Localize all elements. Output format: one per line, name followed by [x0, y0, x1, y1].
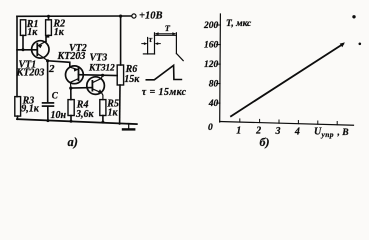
- svg-text:120: 120: [204, 60, 219, 70]
- svg-text:, В: , В: [337, 128, 349, 138]
- svg-text:Т: Т: [165, 23, 171, 33]
- svg-text:C: C: [52, 91, 59, 101]
- svg-text:2: 2: [255, 126, 261, 137]
- svg-text:Т, мкс: Т, мкс: [226, 19, 252, 29]
- svg-text:КТ203: КТ203: [57, 51, 86, 62]
- svg-text:4: 4: [294, 127, 300, 138]
- svg-text:9,1к: 9,1к: [21, 104, 40, 115]
- svg-text:τ = 15мкс: τ = 15мкс: [142, 87, 187, 98]
- svg-text:1к: 1к: [27, 27, 38, 38]
- svg-text:160: 160: [204, 40, 219, 50]
- svg-text:упр: упр: [321, 130, 334, 139]
- svg-text:1: 1: [236, 125, 241, 136]
- svg-text:0: 0: [208, 123, 213, 133]
- svg-text:1к: 1к: [54, 27, 65, 38]
- svg-text:+10В: +10В: [139, 10, 163, 21]
- svg-text:КТ203: КТ203: [16, 68, 45, 79]
- svg-text:τ: τ: [149, 34, 153, 44]
- svg-text:10н: 10н: [51, 110, 67, 121]
- svg-text:б): б): [260, 135, 270, 149]
- svg-text:2: 2: [48, 63, 55, 75]
- svg-text:40: 40: [208, 99, 219, 109]
- svg-text:80: 80: [209, 79, 219, 89]
- svg-text:3,6к: 3,6к: [75, 109, 95, 120]
- svg-text:3: 3: [275, 126, 281, 137]
- svg-text:1к: 1к: [108, 108, 119, 119]
- svg-text:КТ312: КТ312: [88, 64, 115, 74]
- svg-text:а): а): [68, 135, 78, 149]
- svg-text:VT3: VT3: [90, 53, 108, 64]
- svg-text:200: 200: [203, 21, 219, 31]
- svg-text:15к: 15к: [124, 74, 140, 85]
